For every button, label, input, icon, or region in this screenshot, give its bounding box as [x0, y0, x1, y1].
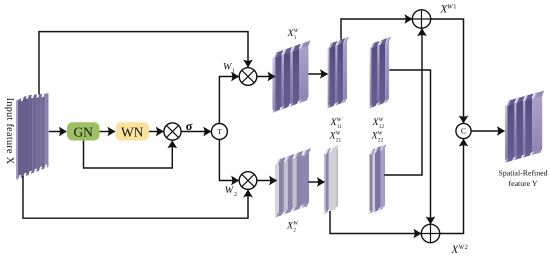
svg-text:W: W [294, 28, 299, 34]
svg-text:feature Y: feature Y [509, 179, 538, 188]
svg-text:W: W [336, 131, 341, 137]
svg-text:W: W [378, 131, 383, 137]
svg-text:2: 2 [293, 228, 296, 234]
svg-text:σ: σ [186, 119, 193, 133]
svg-text:2: 2 [234, 192, 237, 198]
svg-text:C: C [461, 127, 466, 136]
svg-text:11: 11 [337, 124, 342, 130]
svg-text:1: 1 [453, 4, 456, 11]
svg-text:WN: WN [121, 124, 144, 139]
svg-text:21: 21 [336, 138, 342, 144]
svg-text:W: W [379, 117, 384, 123]
svg-text:T: T [217, 127, 222, 136]
svg-text:1: 1 [294, 35, 297, 41]
svg-text:Input feature X: Input feature X [4, 98, 15, 165]
svg-text:W: W [293, 221, 298, 227]
svg-text:22: 22 [378, 138, 384, 144]
svg-text:2: 2 [465, 244, 468, 251]
svg-text:1: 1 [232, 69, 235, 75]
svg-text:W: W [337, 117, 342, 123]
svg-text:12: 12 [379, 124, 385, 130]
svg-text:GN: GN [73, 124, 93, 139]
svg-text:Spatial-Refined: Spatial-Refined [499, 169, 548, 178]
